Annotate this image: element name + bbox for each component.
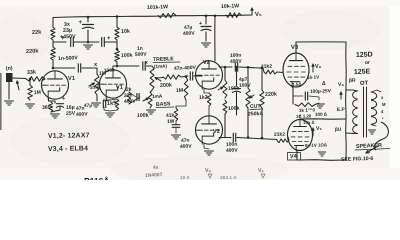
svg-text:16·1V: 16·1V [307,75,320,80]
svg-text:V3: V3 [291,45,299,51]
tube V4 pentode [288,119,313,151]
svg-text:1n-500V: 1n-500V [58,55,79,62]
svg-text:10k: 10k [121,29,130,35]
label EP [337,107,346,113]
svg-text:500V: 500V [135,52,148,58]
svg-text:or: or [365,60,370,66]
wire plate bus top [296,41,346,43]
resistor 101k-1W [158,13,176,18]
svg-text:400V: 400V [230,59,243,65]
wire pot top stem [96,68,98,74]
capacitor V3 cath [305,92,307,100]
capacitor coupling 1 (plates) [78,64,80,72]
node grid junction [29,78,32,81]
resistor 100k vertical [115,50,120,62]
node rail riser [214,15,217,18]
tube V3 pentode [283,53,309,88]
resistor 100k lower [223,100,227,114]
label V5 [255,12,262,18]
svg-text:V₆: V₆ [315,64,322,70]
capacitor 47u (plates) [199,21,211,31]
label CUT [250,104,263,110]
ground V2b [205,151,214,155]
wire left rail mid [52,40,54,47]
wire riser V2a [214,16,216,61]
capacitor 47n mid [172,125,180,128]
wire right trunk [345,42,348,160]
svg-text:400V: 400V [124,99,137,105]
wire right rail mid [116,40,118,50]
svg-text:400V: 400V [226,148,239,154]
label 4u7 100V [239,77,252,89]
node 220k bottom [261,137,264,140]
label 100k plate duplicate [104,67,115,74]
label 47n 400V mid [180,138,193,150]
label 1k5 [107,101,117,107]
svg-text:SEE FIG.10-6: SEE FIG.10-6 [341,156,374,163]
wire OT primary top stub [346,89,353,91]
label +450V [60,34,76,41]
wire treble to bass [151,90,153,92]
svg-text:220k: 220k [265,92,277,98]
tube V1b [100,70,127,98]
wire V3 cathode [292,87,294,96]
ground 1M [26,104,35,108]
wire 4u7 stem2 [236,92,238,115]
label 1M grid [34,90,41,96]
pot wiper arrow [89,83,95,86]
ground filter [202,43,211,47]
inductor OT primary [353,91,358,133]
wire 4u7 stem [236,67,238,86]
jack switch arrow [16,81,19,90]
capacitor electrolytic 1 [71,38,74,47]
label 360 [42,105,51,111]
svg-text:200k: 200k [160,83,172,89]
label OT right [360,81,369,87]
label 10k-1W [221,3,239,10]
resistor 22k [51,27,56,40]
label V2 a [203,60,210,66]
ground volume pot [92,103,101,107]
svg-text:+: + [199,21,202,27]
svg-text:1k 1™0: 1k 1™0 [299,107,316,113]
resistor 21k2 upper [264,70,277,74]
wire cath branch [293,95,303,97]
label 200k [160,83,172,89]
label 125E [354,68,371,76]
wire 47n stem [175,121,177,125]
paper background [0,0,400,180]
wire mid rail left [53,41,66,43]
label tube key 1 [48,132,90,140]
capacitor 16u [56,104,63,108]
svg-text:10k-1W: 10k-1W [221,3,239,10]
label 100u-25V [310,88,332,95]
label 100k bass [137,113,149,119]
resistor 10k-1W [226,13,241,18]
ground 41k chain [172,135,181,139]
svg-text:250kA: 250kA [248,111,264,118]
wire jack to 33k [13,77,27,80]
svg-text:9µ-1V 1ΩΔ: 9µ-1V 1ΩΔ [305,142,327,148]
label 1mA treble [154,64,168,69]
potentiometer CUT 250kA [246,88,250,108]
wire secondary bottom tap [371,125,376,127]
resistor V3 cathode [295,103,315,107]
wire jack sleeve down [8,82,10,99]
label 400V tone [124,99,137,105]
wire primary bottom lead [354,133,358,135]
wire plate node to treble cap [117,65,139,67]
wire cap to treble pot [147,65,153,67]
label 10M tri [303,120,315,125]
label 33k [27,70,36,76]
label 23u [63,28,72,34]
node cut top [247,66,250,69]
svg-text:10µ Δ: 10µ Δ [303,120,315,125]
label 10k [121,29,130,35]
wire 100k pot stem [224,67,226,80]
capacitor coupling V2a [190,72,192,80]
wire top edge of PSU block [53,17,117,18]
wire cap stem top [87,17,89,22]
label V4 boxed [288,153,301,161]
wire right rail bottom [116,62,118,66]
svg-text:E.P: E.P [337,107,346,113]
svg-text:100k: 100k [228,106,240,112]
label 21k2 upper [261,64,273,70]
svg-text:100k: 100k [137,113,149,119]
svg-text:Δ: Δ [322,81,326,87]
wire V1a cathode [49,99,56,101]
junction top cap [87,16,90,19]
svg-text:1.5Δ: 1.5Δ [292,82,303,87]
capacitor filter top (plates) [83,25,94,29]
resistor 21k2 lower [277,139,289,143]
wire wiper out [158,77,163,80]
label 47u [84,103,93,109]
resistor 1k2 [207,93,211,106]
resistor 33k [26,77,45,82]
svg-text:1k5: 1k5 [107,101,117,107]
arrow EP [340,92,342,99]
svg-text:1M: 1M [34,90,41,96]
wire filter stem [205,16,207,24]
label VA [205,168,212,178]
treble wiper arrow [155,78,161,82]
label V6 arrow [312,64,322,72]
node B+ top right [116,15,119,18]
ground below mid [84,45,93,49]
svg-text:100k: 100k [104,67,115,74]
svg-text:33k: 33k [27,70,36,76]
label 100k [121,53,133,59]
svg-text:125E: 125E [354,68,371,76]
label 100n 400V [230,53,243,65]
wire 220k stem [261,68,263,90]
svg-text:1k2: 1k2 [199,95,208,101]
wire V4 plate bus [300,118,346,120]
label 1N4007 [145,172,190,180]
mark x coupling [94,62,98,68]
svg-text:V2: V2 [203,60,210,66]
wire 2k-22n top [129,92,136,97]
svg-text:125D: 125D [356,51,373,59]
wire 2k-22n bot [129,97,140,104]
wire cut stem [247,67,249,88]
potentiometer 100k [223,80,227,98]
svg-text:V1: V1 [68,76,76,82]
label 47u 400V [183,25,196,37]
label 47n 400V lower-left [76,106,89,118]
svg-text:21k2: 21k2 [274,132,286,138]
label V1 b [116,85,123,91]
label 1M mid [176,88,183,94]
wire V3 plate up [295,42,297,53]
node rail filter [205,15,208,18]
svg-text:47n-400V: 47n-400V [174,65,197,72]
cut wiper [250,95,255,98]
resistor 10k vertical [115,27,120,40]
label V3 [291,45,299,51]
wire bottom return [300,159,346,162]
wire V1b cathode [106,98,110,100]
sec tap marks [381,95,386,121]
label 100 tri [315,112,328,117]
input jack [6,73,13,82]
transformer core [364,87,367,137]
wire right rail top [116,17,118,28]
svg-text:47µ: 47µ [84,103,93,109]
wire 220k to bus [261,108,263,138]
wire V2a plate out [219,66,232,68]
wire left rail to V1 plate [52,60,54,68]
svg-text:+: + [79,20,83,26]
resistor 1M mid [184,77,188,100]
svg-text:+: + [61,36,65,42]
label 250kA [248,111,264,118]
svg-text:100k: 100k [121,53,133,59]
label IN [6,66,13,72]
wire V4 plate up [299,118,301,121]
label 22n [124,93,133,99]
node 1M mid [185,75,188,78]
wire cath stem [54,101,56,103]
node V1b plate [116,65,119,68]
wire cath net bot [104,107,117,111]
paper mottling [0,10,380,184]
node 100k pot top [224,66,227,69]
capacitor 22n [137,93,139,100]
resistor 41k [174,108,178,121]
inductor OT secondary [371,92,377,124]
wire 47n stem2 [175,128,177,134]
svg-text:+: + [107,36,111,42]
capacitor 100n lower [233,133,235,141]
tube V2b [196,116,223,144]
svg-text:100V: 100V [239,83,252,89]
label 21k2 lower [274,132,286,138]
wire lower bus [237,138,277,140]
wire 21k2 to V3 grid [277,71,283,74]
label SEE FIG 10-6 [341,156,374,163]
wire filter stem2 [205,32,207,41]
ground cathode V1a [51,114,60,118]
speaker cable curl [374,122,388,150]
svg-text:101k-1W: 101k-1W [147,4,168,11]
label bottom-left cut text [84,176,110,186]
wire 100k to bus [224,114,226,138]
label V2 b [213,129,220,135]
label + cap1 [61,36,65,42]
label 100k lower [228,106,240,112]
label 1n-500V [58,55,79,62]
label TREBLE [153,56,180,63]
label BU [335,127,342,133]
label 1k2 [199,95,208,101]
potentiometer TREBLE [150,66,154,90]
svg-text:100 Δ: 100 Δ [315,112,328,117]
svg-text:360: 360 [42,105,51,111]
pot100k wiper [218,87,223,90]
resistor 220k right [260,90,264,108]
wire interstage right [239,67,263,68]
label 2k [126,87,132,93]
label 263-1 [220,175,237,181]
wire cap to V2a grid [194,75,202,77]
mark x treble top [145,60,148,66]
wire 21k2 to V4 grid [288,137,289,141]
label 100n 400V lower [226,142,239,154]
label o 1mA [88,85,101,91]
resistor 200k [163,75,181,80]
wire rail to 21k2 [263,68,264,72]
wire res to gnd [315,103,319,105]
node V1a plate [52,67,55,70]
capacitor 4u7 [233,89,241,93]
svg-text:1M: 1M [176,88,183,94]
wire V1b grid [97,83,99,85]
ground V3 cathode [316,104,325,108]
resistor 360 cathode [49,102,53,112]
wire V2b cathode stem [204,144,209,149]
node mid wire [87,41,90,44]
label + 16u [62,96,65,102]
tube V2a [196,61,223,89]
label 1.5k [292,82,303,87]
svg-text:(1mA): (1mA) [154,64,168,69]
wire V4 cathode down [297,151,300,160]
wire secondary top tap [371,90,381,92]
svg-text:1mA: 1mA [152,94,163,100]
label 1k 1W0 [299,107,316,113]
label V1 [68,76,76,82]
label 1k 1W cath [296,113,312,119]
capacitor electrolytic 2 [102,38,105,47]
wire 33k to grid [42,79,45,81]
wire cath net top [104,99,117,101]
resistor 220k [51,47,56,60]
wire 1M stem [29,79,31,85]
node cut bottom [247,136,250,139]
wire cath down [292,96,294,104]
label V8 arrow [338,82,345,88]
resistor 2k [127,92,131,104]
capacitor 100n interstage [235,63,237,71]
wire cap to pot [82,67,97,69]
svg-text:(n): (n) [6,66,13,72]
label 41k 1W [166,113,175,125]
potentiometer BASS [148,92,152,108]
capacitor treble in [143,62,145,70]
label 3x [64,22,70,28]
wire cath join [51,107,60,112]
label V5 out [312,126,323,136]
bass wiper arrow [143,98,149,101]
svg-text:V₈: V₈ [338,82,345,88]
svg-text:23µ: 23µ [63,28,72,34]
wire B+ rail [117,15,252,17]
label 125D [356,51,373,59]
svg-text:1₡ 1.20: 1₡ 1.20 [296,113,312,119]
svg-text:1W: 1W [167,119,175,125]
tube V1a [42,71,69,99]
ground bass [147,110,156,114]
edge mark left [0,73,2,130]
capacitor cath V1b [103,100,105,107]
label 1M volume [99,71,107,77]
label SPEAKER [355,143,390,150]
svg-text:400V: 400V [183,31,196,37]
label 4x diodes [153,165,159,171]
svg-text:21k2: 21k2 [261,64,273,70]
label 1n 500V [135,46,148,58]
node 4u7 top [235,66,238,69]
svg-text:V1: V1 [116,85,123,91]
ground V4 area [318,152,326,156]
label 22k [32,30,42,36]
label + cap2 [107,36,111,42]
speaker arrow [366,146,378,153]
ground speaker [369,130,376,134]
wire cut to bus [247,108,249,138]
label Vf [258,168,265,178]
arrow V5 rail end [251,8,253,15]
svg-text:+: + [62,96,65,102]
wire mid rail right [105,41,117,43]
node 220k top [261,66,264,69]
label + filter top [79,20,83,26]
wire 1M to 41k chain [176,100,186,108]
label 16-1V [307,75,326,87]
label 220k right [265,92,277,98]
label tube key 2 [48,145,88,153]
label 47n-400V [174,65,197,72]
svg-text:P116Å: P116Å [84,176,110,180]
label 220k [26,49,40,55]
label 100k pot [228,86,240,92]
ground input [5,101,14,105]
svg-text:100µ-25V: 100µ-25V [310,88,332,95]
wire cap stem bottom [87,30,89,42]
wire OT primary bottom stub [346,132,354,135]
svg-text:V₅: V₅ [255,12,262,18]
wire plate to cap [53,67,75,69]
svg-text:◦1mA: ◦1mA [88,85,101,91]
svg-text:M: M [382,102,386,107]
wire 200k to cap [181,76,188,77]
